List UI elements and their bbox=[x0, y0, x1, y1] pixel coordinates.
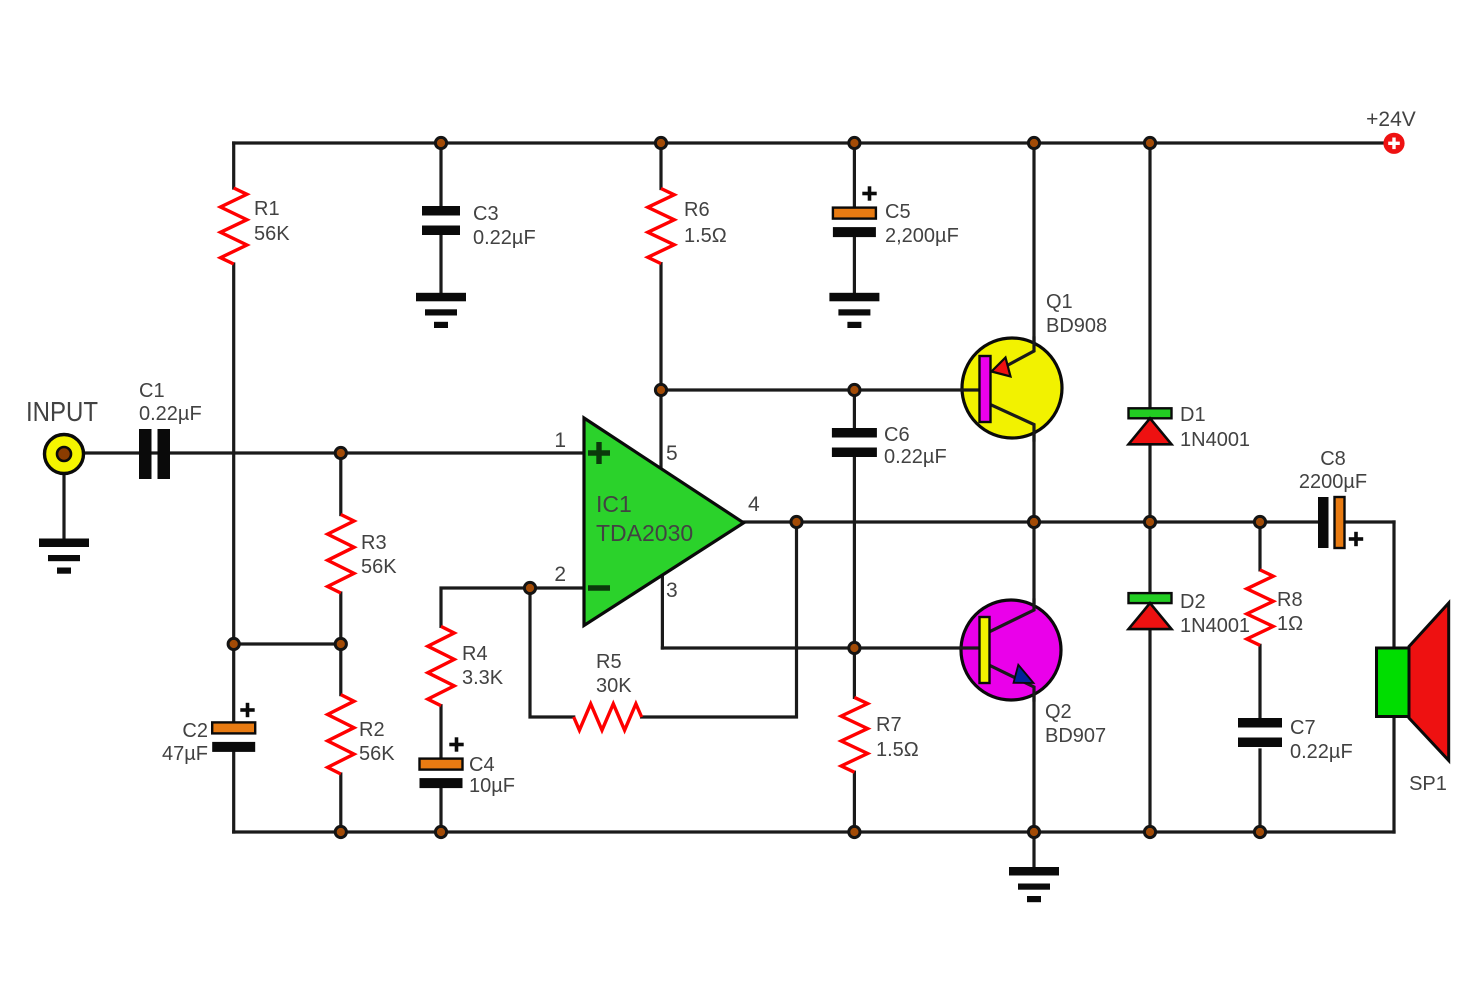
capacitor C6 bbox=[832, 428, 877, 457]
wire pin2 to R4 corner bbox=[441, 588, 584, 626]
wire C3 top lead bbox=[439, 143, 442, 206]
wire R4 to C4 lead bbox=[439, 706, 442, 759]
capacitor C5 bbox=[833, 208, 876, 238]
svg-text:2,200µF: 2,200µF bbox=[885, 225, 959, 247]
svg-text:INPUT: INPUT bbox=[26, 396, 98, 427]
svg-text:R4: R4 bbox=[462, 643, 488, 665]
resistor R1 bbox=[221, 188, 247, 264]
svg-text:R3: R3 bbox=[361, 532, 387, 554]
svg-text:C6: C6 bbox=[884, 424, 910, 446]
node junction 18 bbox=[435, 826, 446, 837]
svg-text:0.22µF: 0.22µF bbox=[884, 446, 947, 468]
wire C6 bottom lead to node648 bbox=[853, 458, 856, 649]
transistor Q2 base bar bbox=[980, 617, 990, 683]
wire top +24V rail bbox=[234, 141, 1384, 144]
wire C3 bottom lead to ground bbox=[439, 235, 442, 293]
svg-text:1N4001: 1N4001 bbox=[1180, 429, 1250, 451]
resistor R4 bbox=[428, 626, 454, 705]
svg-text:3: 3 bbox=[666, 579, 678, 602]
wire C4 bottom lead bbox=[439, 788, 442, 832]
svg-text:1N4001: 1N4001 bbox=[1180, 615, 1250, 637]
wire R2 top lead bbox=[339, 644, 342, 695]
node junction 17 bbox=[335, 826, 346, 837]
wire Q1 emitter internal bbox=[996, 338, 1034, 372]
svg-text:+24V: +24V bbox=[1366, 108, 1416, 131]
transistor Q2 emitter arrow bbox=[1014, 665, 1034, 683]
svg-text:R5: R5 bbox=[596, 651, 622, 673]
wire Q1 collector diagonal bbox=[990, 404, 1035, 425]
wire right edge down to bottom rail bbox=[1392, 522, 1395, 832]
node junction 4 bbox=[1028, 137, 1039, 148]
resistor R7 bbox=[841, 697, 867, 772]
wire C7 bottom lead bbox=[1258, 750, 1261, 832]
transistor Q1 base bar bbox=[980, 356, 991, 422]
wire D1 top lead bbox=[1148, 143, 1151, 408]
svg-text:1.5Ω: 1.5Ω bbox=[684, 225, 727, 247]
svg-text:R6: R6 bbox=[684, 199, 710, 221]
svg-text:R2: R2 bbox=[359, 719, 385, 741]
wire R3 bottom lead bbox=[339, 593, 342, 644]
wire R2 bottom lead bbox=[339, 774, 342, 832]
svg-text:1: 1 bbox=[554, 429, 566, 452]
svg-text:C5: C5 bbox=[885, 201, 911, 223]
wire D1 bottom lead bbox=[1148, 444, 1151, 522]
node junction 10 bbox=[791, 516, 802, 527]
wire R1 bottom lead down to C2 node bbox=[232, 264, 235, 644]
svg-text:BD907: BD907 bbox=[1045, 725, 1106, 747]
wire C2 top lead bbox=[232, 644, 235, 722]
wire R7 top lead bbox=[853, 648, 856, 697]
+24V supply terminal bbox=[1383, 133, 1404, 154]
svg-text:0.22µF: 0.22µF bbox=[1290, 741, 1353, 763]
svg-text:1.5Ω: 1.5Ω bbox=[876, 739, 919, 761]
ground input jack bbox=[39, 539, 89, 574]
svg-text:0.22µF: 0.22µF bbox=[139, 403, 202, 425]
wire C5 bottom lead to ground bbox=[853, 237, 856, 293]
diode D2 bbox=[1129, 593, 1172, 629]
svg-text:C8: C8 bbox=[1320, 448, 1346, 470]
wire Q1 emitter diagonal bbox=[996, 351, 1034, 372]
svg-text:C1: C1 bbox=[139, 380, 165, 402]
svg-text:D2: D2 bbox=[1180, 591, 1206, 613]
capacitor C1 bbox=[139, 429, 170, 479]
wire pin2 node down to R5 bbox=[530, 588, 574, 717]
node junction 15 bbox=[228, 638, 239, 649]
svg-text:R7: R7 bbox=[876, 714, 902, 736]
node junction 2 bbox=[655, 137, 666, 148]
svg-text:SP1: SP1 bbox=[1409, 773, 1447, 795]
speaker SP1 cone bbox=[1409, 603, 1449, 761]
node junction 5 bbox=[1144, 137, 1155, 148]
node junction 11 bbox=[1028, 516, 1039, 527]
plus mark C2 bbox=[240, 703, 254, 717]
wire R8 to C7 lead bbox=[1258, 645, 1261, 718]
wire Q2 collector internal bbox=[989, 600, 1034, 632]
svg-text:2200µF: 2200µF bbox=[1299, 471, 1367, 493]
resistor R6 bbox=[648, 189, 674, 264]
wire Q2 base internal bbox=[961, 646, 981, 649]
wire C5 top lead bbox=[853, 143, 856, 208]
wire Q2 ground stub bbox=[1032, 832, 1035, 867]
svg-text:5: 5 bbox=[666, 442, 678, 465]
wire op-amp pin5 lead bbox=[659, 390, 662, 470]
svg-text:R8: R8 bbox=[1277, 589, 1303, 611]
wire bottom ground rail bbox=[234, 830, 1394, 833]
capacitor C2 bbox=[212, 722, 255, 752]
wire input jack to ground bbox=[62, 472, 65, 539]
node junction 7 bbox=[655, 384, 666, 395]
wire C2 bottom lead to bottom rail bbox=[232, 753, 235, 833]
capacitor C7 bbox=[1238, 718, 1282, 747]
svg-text:C4: C4 bbox=[469, 754, 495, 776]
svg-text:D1: D1 bbox=[1180, 404, 1206, 426]
wire R5 right to output bbox=[642, 522, 797, 717]
capacitor C4 bbox=[420, 759, 463, 789]
wire Q2 collector up to output node bbox=[1032, 522, 1035, 603]
wire R6 top lead bbox=[659, 143, 662, 189]
svg-text:C2: C2 bbox=[182, 720, 208, 742]
resistor R2 bbox=[328, 695, 354, 774]
diode D1 bbox=[1129, 408, 1172, 444]
wire C6 top lead bbox=[853, 390, 856, 428]
svg-text:Q2: Q2 bbox=[1045, 701, 1072, 723]
wire Q1 collector down to output node bbox=[1032, 425, 1035, 523]
svg-text:C7: C7 bbox=[1290, 717, 1316, 739]
svg-text:10µF: 10µF bbox=[469, 775, 515, 797]
wire R6 bottom lead to node390 bbox=[659, 264, 662, 390]
svg-text:IC1: IC1 bbox=[596, 491, 632, 517]
node junction 8 bbox=[849, 384, 860, 395]
svg-text:Q1: Q1 bbox=[1046, 291, 1073, 313]
wire Q2 collector diagonal bbox=[989, 610, 1034, 632]
plus mark C8 bbox=[1349, 532, 1363, 546]
svg-text:47µF: 47µF bbox=[162, 743, 208, 765]
node junction 12 bbox=[1144, 516, 1155, 527]
wire Q2 emitter down to ground rail bbox=[1032, 687, 1035, 832]
svg-text:30K: 30K bbox=[596, 675, 632, 697]
wire Q1 collector from top rail bbox=[1032, 143, 1035, 351]
svg-text:C3: C3 bbox=[473, 203, 499, 225]
svg-text:56K: 56K bbox=[254, 223, 290, 245]
wire node390 to Q1 base bbox=[661, 388, 984, 391]
node junction 22 bbox=[1254, 826, 1265, 837]
wire R8 top lead bbox=[1258, 522, 1261, 570]
svg-text:3.3K: 3.3K bbox=[462, 667, 504, 689]
wire C8 to right corner bbox=[1345, 520, 1395, 523]
input jack connector bbox=[45, 435, 84, 474]
wire D2 top lead bbox=[1148, 522, 1151, 593]
transistor Q1 emitter arrow bbox=[992, 358, 1011, 377]
wire Q2 emitter diagonal bbox=[989, 665, 1034, 687]
ground C5 bbox=[829, 293, 879, 328]
svg-text:R1: R1 bbox=[254, 198, 280, 220]
wire input to op-amp pin1 bbox=[84, 451, 584, 454]
svg-text:BD908: BD908 bbox=[1046, 315, 1107, 337]
op-amp minus input mark bbox=[588, 585, 610, 590]
node junction 14 bbox=[849, 642, 860, 653]
svg-text:2: 2 bbox=[554, 563, 566, 586]
node junction 13 bbox=[1254, 516, 1265, 527]
svg-text:TDA2030: TDA2030 bbox=[596, 520, 693, 546]
node junction 16 bbox=[335, 638, 346, 649]
resistor R5 bbox=[574, 704, 642, 730]
node junction 1 bbox=[435, 137, 446, 148]
wire R3 top lead bbox=[339, 453, 342, 515]
svg-text:56K: 56K bbox=[359, 743, 395, 765]
capacitor C3 bbox=[422, 206, 460, 235]
node junction 20 bbox=[1028, 826, 1039, 837]
node junction 19 bbox=[849, 826, 860, 837]
wire D2 bottom lead bbox=[1148, 629, 1151, 832]
plus mark C5 bbox=[862, 186, 876, 200]
wire op-amp output pin4 bbox=[744, 520, 1318, 523]
ground C3 bbox=[416, 293, 466, 328]
resistor R3 bbox=[328, 515, 354, 594]
transistor Q1 body bbox=[962, 338, 1062, 438]
wire Q1 base internal bbox=[962, 388, 984, 391]
wire op-amp pin3 down bbox=[661, 572, 664, 648]
wire Q1 collector internal bbox=[988, 404, 1034, 441]
wire R1 top lead bbox=[232, 143, 235, 188]
svg-text:4: 4 bbox=[748, 493, 760, 516]
resistor R8 bbox=[1247, 570, 1273, 645]
node junction 3 bbox=[849, 137, 860, 148]
transistor Q2 body bbox=[961, 600, 1061, 700]
wire node644 link bbox=[234, 642, 341, 645]
plus mark C4 bbox=[449, 737, 463, 751]
node junction 6 bbox=[335, 447, 346, 458]
speaker SP1 magnet bbox=[1377, 648, 1410, 717]
wire Q2 emitter internal bbox=[989, 665, 1034, 700]
ground power output bbox=[1009, 867, 1059, 902]
node junction 9 bbox=[524, 582, 535, 593]
svg-text:0.22µF: 0.22µF bbox=[473, 227, 536, 249]
node junction 21 bbox=[1144, 826, 1155, 837]
op-amp U1 TDA2030 triangle bbox=[584, 418, 744, 626]
op-amp plus input mark bbox=[588, 442, 610, 464]
svg-text:1Ω: 1Ω bbox=[1277, 613, 1303, 635]
wire R7 bottom lead bbox=[853, 772, 856, 832]
svg-text:56K: 56K bbox=[361, 556, 397, 578]
wire pin3 to Q2 base bbox=[662, 646, 981, 649]
capacitor C8 bbox=[1318, 497, 1345, 548]
